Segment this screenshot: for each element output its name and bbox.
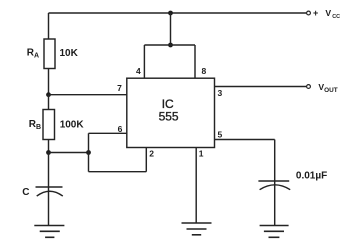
ground middle [182,223,212,235]
capacitor C plate [36,186,63,188]
wire pin7 [49,94,127,96]
wire top rail [49,12,307,14]
ground left [34,226,64,238]
wire RA to node A [48,69,50,95]
svg-text:5: 5 [218,129,223,139]
svg-text:555: 555 [159,110,179,124]
capacitor C curved plate [37,191,63,196]
node C junction [86,150,91,155]
svg-text:C: C [22,187,29,198]
svg-text:10K: 10K [60,48,79,59]
wire node B to capacitor C [48,153,50,226]
terminal +Vcc [307,11,311,15]
svg-text:VOUT: VOUT [318,82,337,94]
wire top rail to bracket [170,13,172,45]
wire pin8 vertical [194,45,196,78]
svg-text:RA: RA [27,47,39,59]
wire pin3 [215,86,307,88]
wire bracket horizontal [144,44,195,46]
node A junction [46,92,51,97]
capacitor C2 plate [258,180,289,182]
svg-text:+VCC: +VCC [313,8,340,20]
ground right [260,226,289,238]
svg-text:3: 3 [218,88,223,98]
svg-text:RB: RB [29,119,41,131]
node D junction on top rail [168,11,173,16]
op IC 555 box U1 [127,78,215,147]
node E junction on bracket [168,43,173,48]
svg-text:7: 7 [117,83,122,93]
wire bottom to pin2 [89,171,147,173]
svg-text:6: 6 [118,124,123,134]
wire pin1 vertical [195,148,197,224]
terminal Vout [307,85,311,89]
wire left rail top [48,13,50,39]
wire pin4 vertical [143,45,145,78]
wire pin2 vertical [145,148,147,172]
svg-text:2: 2 [149,149,154,159]
svg-text:8: 8 [202,66,207,76]
wire node C vertical [88,133,90,171]
wire node A to RB [48,95,50,110]
svg-text:1: 1 [199,149,204,159]
svg-text:100K: 100K [60,120,85,131]
wire pin6 [89,132,127,134]
wire RB to node B [48,140,50,153]
resistor RB [43,110,55,140]
resistor RA [44,39,55,69]
wire pin5 down to capacitor [274,140,276,226]
svg-text:4: 4 [136,66,141,76]
wire node B to node C [49,152,89,154]
wire pin5 [215,139,275,141]
svg-text:0.01µF: 0.01µF [296,171,327,182]
capacitor C2 curved plate [260,185,291,190]
node B junction [46,150,51,155]
